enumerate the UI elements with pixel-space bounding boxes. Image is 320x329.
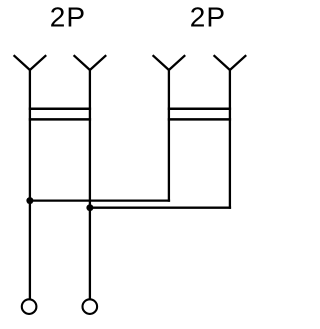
svg-text:2P: 2P bbox=[50, 1, 86, 32]
svg-text:2P: 2P bbox=[190, 1, 226, 32]
